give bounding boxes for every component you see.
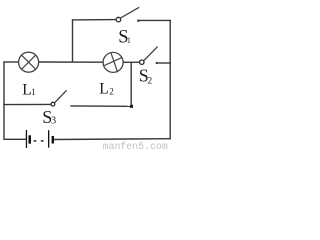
wire middle row right segment [157, 62, 171, 64]
switch S1 fixed contact dot [137, 20, 139, 22]
wire battery to bottom right [54, 138, 171, 141]
switch S1 lever [121, 7, 140, 18]
svg-text:1: 1 [127, 36, 131, 45]
wire middle row lamp L2 to switch S2 [123, 61, 140, 63]
junction dot [130, 105, 133, 108]
wire S3 row from left vertical [3, 103, 51, 105]
switch S3 pivot circle [51, 102, 55, 106]
wire left vertical [3, 61, 5, 139]
svg-text:1: 1 [31, 87, 36, 97]
lamp L1 circle [19, 52, 39, 72]
wire middle row between lamps [39, 61, 104, 63]
svg-text:L: L [99, 80, 108, 97]
battery cell 1 long plate (+) [26, 130, 27, 148]
battery cell 1 short thick plate (-) [29, 135, 32, 143]
switch S1 pivot circle [116, 17, 121, 22]
switch S3 lever [55, 90, 67, 102]
svg-text:2: 2 [147, 76, 152, 86]
wire middle row from left corner to lamp L1 [3, 61, 18, 63]
svg-text:L: L [22, 81, 31, 98]
wire top row right segment [138, 19, 171, 21]
wire branch vertical (top loop) [72, 19, 74, 62]
wire right vertical [169, 20, 171, 139]
lamp L2 circle [103, 52, 123, 72]
svg-text:3: 3 [51, 116, 56, 127]
switch S2 pivot circle [140, 60, 144, 64]
svg-text:2: 2 [109, 87, 114, 97]
wire S3 row right segment [70, 105, 131, 107]
wire branch vertical to S3 row [130, 62, 132, 106]
lamp L1 cross [22, 55, 36, 69]
battery cell 2 long plate (+) [48, 130, 49, 147]
lamp L2 cross [103, 53, 122, 72]
battery cell 2 short thick plate (-) [52, 136, 54, 144]
svg-text:manfen5.com: manfen5.com [103, 141, 168, 151]
wire top row left segment [72, 19, 116, 21]
switch S2 lever [144, 47, 158, 61]
battery dashed link [34, 140, 44, 142]
switch S2 fixed contact dot [156, 62, 158, 64]
wire bottom left to battery [3, 138, 26, 140]
